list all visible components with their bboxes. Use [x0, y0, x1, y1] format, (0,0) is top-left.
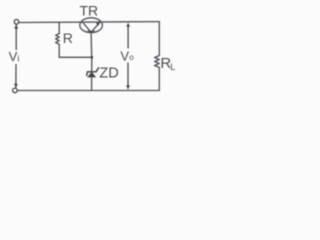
Vi arrow shaft upper	[15, 25, 17, 50]
wire middle horizontal	[59, 56, 92, 58]
Vi arrow shaft lower	[15, 65, 17, 88]
resistor R top lead	[58, 22, 60, 33]
svg-text:V: V	[120, 49, 129, 64]
wire bottom rail	[17, 90, 159, 92]
transistor TR emitter slant	[92, 23, 100, 32]
resistor R zigzag	[56, 34, 60, 45]
zener ZD top lead	[91, 57, 93, 72]
svg-text:R: R	[63, 30, 73, 46]
transistor TR base lead	[90, 32, 93, 57]
terminal circle input bottom	[13, 88, 18, 93]
Vi arrowhead top	[14, 24, 18, 28]
resistor R bottom lead	[58, 44, 60, 57]
transistor TR collector slant	[83, 23, 90, 32]
Vo arrow shaft lower	[127, 63, 129, 87]
transistor TR circle	[80, 18, 103, 33]
zener ZD cathode bar	[86, 67, 99, 76]
zener ZD bottom lead	[91, 77, 93, 90]
wire top rail	[19, 21, 160, 24]
svg-text:o: o	[129, 53, 134, 62]
Vi arrowhead bottom	[14, 84, 18, 88]
wire right rail upper	[158, 22, 160, 56]
svg-text:i: i	[17, 53, 19, 63]
transistor TR emitter arrowhead	[96, 22, 100, 26]
resistor RL zigzag	[155, 56, 160, 68]
svg-text:L: L	[170, 62, 175, 72]
junction dot base node	[90, 56, 93, 59]
wire right rail lower	[158, 68, 160, 91]
zener ZD triangle	[87, 72, 96, 78]
Vo arrowhead bottom	[126, 85, 130, 89]
svg-text:ZD: ZD	[99, 65, 118, 81]
svg-text:V: V	[9, 49, 18, 64]
transistor TR base bar	[88, 31, 94, 33]
svg-text:TR: TR	[80, 2, 99, 18]
terminal circle input top	[14, 20, 19, 25]
Vo arrowhead top	[126, 23, 130, 27]
Vo arrow shaft upper	[127, 25, 129, 48]
